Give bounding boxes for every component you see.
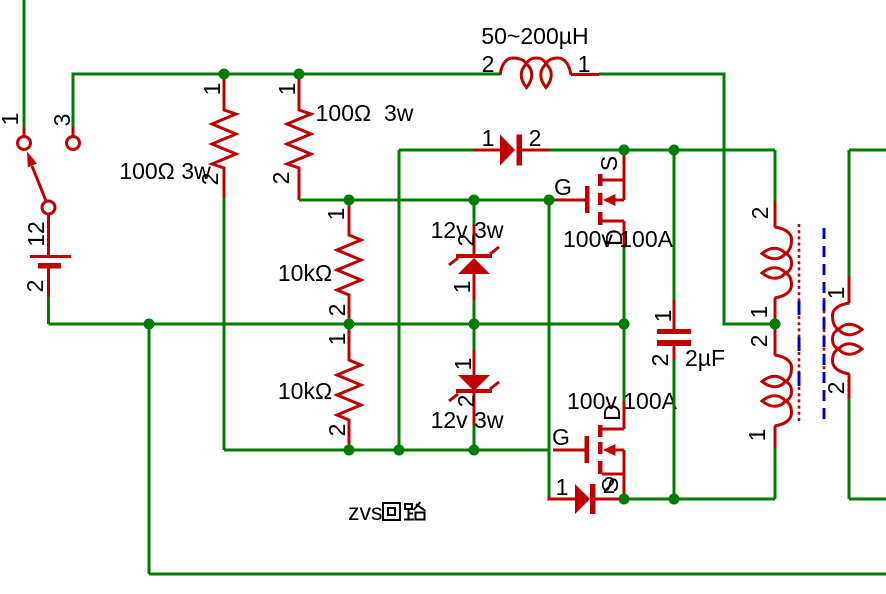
wire top-left vertical to switch pin 1 bbox=[23, 0, 26, 127]
switch pin label 3 bbox=[49, 114, 75, 127]
zener D4 pin label 2 bbox=[453, 395, 479, 408]
svg-text:D: D bbox=[599, 404, 625, 421]
junction Q2 source bottom rail bbox=[619, 494, 630, 505]
resistor R1 value label bbox=[119, 158, 211, 184]
transformer T1 secondary pin label 1 bbox=[823, 287, 849, 300]
wire diode row bbox=[399, 149, 474, 152]
junction Q1 gate bbox=[544, 195, 555, 206]
svg-text:G: G bbox=[554, 174, 572, 200]
wire inductor to transformer center tap bbox=[599, 74, 770, 324]
resistor R3 pin label 1 bbox=[323, 208, 349, 221]
svg-text:50~200µH: 50~200µH bbox=[481, 23, 588, 49]
junction D3 D4 mid bbox=[469, 319, 480, 330]
junction R4 bottom bbox=[344, 445, 355, 456]
svg-text:2: 2 bbox=[197, 173, 223, 186]
wire ground loop bbox=[149, 324, 886, 574]
capacitor C1 value label bbox=[685, 345, 725, 371]
svg-text:2: 2 bbox=[603, 472, 616, 498]
wire switch pin 3 up and top rail to inductor bbox=[73, 74, 500, 127]
resistor R2 100ohm 3w bbox=[287, 74, 549, 200]
svg-text:1: 1 bbox=[823, 287, 849, 300]
svg-text:1: 1 bbox=[744, 429, 770, 442]
resistor R1 100ohm 3w bbox=[212, 74, 236, 450]
svg-text:10kΩ: 10kΩ bbox=[278, 378, 332, 404]
svg-text:2: 2 bbox=[324, 424, 350, 437]
junction R2 top rail bbox=[294, 69, 305, 80]
mosfet Q1 label D bbox=[601, 229, 627, 246]
resistor R1 pin label 2 bbox=[197, 173, 223, 186]
svg-text:1: 1 bbox=[199, 83, 225, 96]
zener D3 12v 3w upper bbox=[449, 200, 499, 350]
svg-text:1: 1 bbox=[0, 113, 23, 126]
wire diode to source rail bbox=[549, 150, 775, 201]
diode D2 pin label 1 bbox=[556, 474, 569, 500]
junction D3 top bbox=[469, 195, 480, 206]
svg-text:1: 1 bbox=[556, 474, 569, 500]
svg-text:2: 2 bbox=[453, 234, 479, 247]
svg-text:S: S bbox=[596, 156, 622, 171]
zener D3 pin label 1 bbox=[449, 281, 475, 294]
svg-text:1: 1 bbox=[650, 310, 676, 323]
junction battery return bbox=[144, 319, 155, 330]
switch S1 bbox=[18, 127, 80, 214]
svg-text:1: 1 bbox=[450, 358, 476, 371]
wire vertical x399 bbox=[398, 150, 401, 450]
junction R1 top rail bbox=[219, 69, 230, 80]
capacitor C1 pin label 2 bbox=[647, 354, 673, 367]
svg-text:1: 1 bbox=[274, 83, 300, 96]
svg-text:2: 2 bbox=[268, 172, 294, 185]
battery pin label 2 bbox=[22, 280, 48, 293]
svg-text:2µF: 2µF bbox=[685, 345, 725, 371]
svg-text:2: 2 bbox=[746, 335, 772, 348]
junction R3 top bbox=[344, 195, 355, 206]
diode D1 pin label 1 bbox=[482, 125, 495, 151]
svg-text:3: 3 bbox=[49, 114, 75, 127]
wire bottom rail bbox=[624, 448, 775, 499]
junction Q1 source rail bbox=[619, 145, 630, 156]
svg-text:zvs: zvs bbox=[348, 499, 383, 525]
resistor R1 pin label 1 bbox=[199, 83, 225, 96]
resistor R4 pin label 1 bbox=[324, 333, 350, 346]
svg-text:2: 2 bbox=[529, 125, 542, 151]
junction R3 R4 mid bbox=[344, 319, 355, 330]
svg-text:2: 2 bbox=[453, 395, 479, 408]
switch pin label 1 bbox=[0, 113, 23, 126]
resistor R3 pin label 2 bbox=[324, 304, 350, 317]
mosfet Q1 label S bbox=[596, 156, 622, 171]
transformer T1 core line left bbox=[798, 224, 801, 423]
svg-text:2: 2 bbox=[747, 207, 773, 220]
svg-text:2: 2 bbox=[823, 382, 849, 395]
svg-text:1: 1 bbox=[324, 333, 350, 346]
wire gate rail upper bbox=[548, 200, 551, 496]
mosfet Q2 lower 100v 100A bbox=[553, 324, 624, 499]
svg-text:2: 2 bbox=[22, 280, 48, 293]
zener D4 12v 3w lower bbox=[449, 350, 499, 450]
battery V1 bbox=[30, 214, 71, 324]
zener D4 value label bbox=[431, 407, 504, 433]
transformer T1 primary lower winding bbox=[762, 324, 792, 448]
transformer T1 primary lower pin label 1 bbox=[744, 429, 770, 442]
mosfet Q2 label D bbox=[599, 404, 625, 421]
resistor R3 10k upper bbox=[337, 200, 361, 324]
transformer T1 primary upper pin label 1 bbox=[746, 306, 772, 319]
resistor R2 pin label 2 bbox=[268, 172, 294, 185]
mosfet Q1 upper 100v 100A bbox=[553, 153, 624, 324]
zener D3 value label bbox=[431, 217, 504, 243]
diode D1 bbox=[474, 135, 549, 166]
capacitor C1 2uF bbox=[657, 150, 691, 499]
capacitor C1 pin label 1 bbox=[650, 310, 676, 323]
svg-text:2: 2 bbox=[647, 354, 673, 367]
resistor R4 value label bbox=[278, 378, 332, 404]
svg-text:1: 1 bbox=[578, 51, 591, 77]
junction lower gate rail bbox=[394, 445, 405, 456]
svg-text:1: 1 bbox=[746, 306, 772, 319]
transformer T1 core line right bbox=[823, 228, 826, 426]
inductor L1 value label bbox=[481, 23, 588, 49]
transformer T1 secondary pin label 2 bbox=[823, 382, 849, 395]
svg-text:100Ω 3w: 100Ω 3w bbox=[316, 100, 414, 126]
zener D4 pin label 1 bbox=[450, 358, 476, 371]
junction D4 bottom bbox=[469, 445, 480, 456]
mosfet Q1 value label bbox=[563, 226, 674, 252]
junction Q1 drain mid rail bbox=[619, 319, 630, 330]
resistor R2 pin label 1 bbox=[274, 83, 300, 96]
svg-text:1: 1 bbox=[323, 208, 349, 221]
transformer T1 primary upper winding bbox=[762, 201, 792, 324]
zener D3 pin label 2 bbox=[453, 234, 479, 247]
resistor R3 value label bbox=[278, 260, 332, 286]
svg-text:G: G bbox=[552, 424, 570, 450]
svg-text:1: 1 bbox=[482, 125, 495, 151]
inductor L1 50~200uH bbox=[500, 58, 599, 88]
inductor L1 pin label 1 bbox=[578, 51, 591, 77]
battery value label 12 bbox=[23, 221, 49, 247]
transformer T1 primary upper pin label 2 bbox=[747, 207, 773, 220]
diode D2 pin label 2 bbox=[603, 472, 616, 498]
svg-text:2: 2 bbox=[324, 304, 350, 317]
mosfet Q2 value label bbox=[567, 388, 678, 414]
mosfet Q2 label S bbox=[597, 477, 623, 492]
resistor R2 value label bbox=[316, 100, 414, 126]
junction C1 top bbox=[669, 145, 680, 156]
transformer T1 primary lower pin label 2 bbox=[746, 335, 772, 348]
svg-text:2: 2 bbox=[482, 51, 495, 77]
inductor L1 pin label 2 bbox=[482, 51, 495, 77]
junction transformer center tap bbox=[770, 319, 781, 330]
svg-text:12: 12 bbox=[23, 221, 49, 247]
svg-text:10kΩ: 10kΩ bbox=[278, 260, 332, 286]
svg-text:12v 3w: 12v 3w bbox=[431, 407, 504, 433]
diode D2 bbox=[549, 484, 620, 514]
wire mid rail bbox=[49, 323, 625, 326]
wire gate rail lower bbox=[224, 449, 549, 452]
svg-text:100v 100A: 100v 100A bbox=[563, 226, 674, 252]
resistor R4 10k lower bbox=[337, 324, 361, 450]
title zvs circuit bbox=[348, 499, 426, 525]
mosfet Q2 label G bbox=[552, 424, 570, 450]
transformer T1 secondary winding bbox=[833, 150, 886, 499]
svg-text:1: 1 bbox=[449, 281, 475, 294]
junction C1 bottom bbox=[669, 494, 680, 505]
mosfet Q1 label G bbox=[554, 174, 572, 200]
wire secondary top to edge bbox=[849, 149, 886, 152]
resistor R4 pin label 2 bbox=[324, 424, 350, 437]
diode D1 pin label 2 bbox=[529, 125, 542, 151]
